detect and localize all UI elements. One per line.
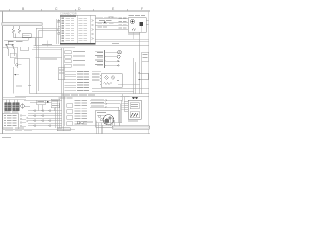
motor box M1 bbox=[96, 110, 120, 127]
wire row bottom A bbox=[90, 100, 122, 122]
U3 pin 3 bbox=[104, 60, 107, 62]
ladder boxes bottom 3 bbox=[67, 116, 73, 120]
wire bus row A bbox=[95, 19, 128, 23]
wire bus row B bbox=[95, 25, 128, 27]
wire label at bulbs bbox=[84, 121, 93, 124]
wire bottom y100 bbox=[24, 99, 62, 101]
hook symbol 1 bbox=[15, 64, 18, 67]
legend row 5 bbox=[62, 28, 65, 29]
wire row 4 bbox=[65, 79, 77, 81]
extra text row bottom-left bbox=[3, 127, 13, 130]
table side verticals bbox=[57, 19, 59, 44]
wire row bottom C bbox=[90, 107, 119, 123]
inline connector on bottom wire bbox=[57, 128, 70, 131]
wire horizontal y47 bbox=[3, 46, 18, 48]
wire row bl6 bbox=[28, 122, 62, 124]
stub wires to right frame bbox=[146, 21, 149, 25]
ladder boxes bottom 2 bbox=[67, 110, 73, 114]
harness tube W1 bbox=[2, 22, 43, 26]
legend row 1 bbox=[62, 18, 65, 19]
short vertical x47 bbox=[46, 41, 48, 47]
wire from tube to fuse F2 bbox=[19, 26, 21, 28]
wire y84.5 bbox=[118, 84, 140, 86]
long wire y93.6 bbox=[30, 93, 150, 95]
bulb connector 1 bbox=[77, 121, 80, 124]
wire row bl4 bbox=[28, 117, 62, 119]
tiny label in box bbox=[16, 85, 22, 88]
wire from pin2 bbox=[106, 56, 117, 58]
wire row bottom B bbox=[90, 104, 120, 123]
border frame left bbox=[2, 11, 4, 134]
arrow marks on rows bbox=[26, 117, 28, 122]
device outline left tall bbox=[13, 59, 30, 94]
junction box left bbox=[58, 68, 65, 80]
wire from tube to fuse F1 bbox=[13, 26, 15, 28]
vertical bus bottom-middle bbox=[62, 96, 65, 128]
wire row 2 bbox=[65, 73, 77, 75]
nested wire corner 1 bbox=[36, 28, 57, 93]
connector stub wires bbox=[7, 100, 18, 103]
U2 internal drop bbox=[133, 26, 141, 39]
terminal bracket right bbox=[140, 73, 148, 80]
wire bottom of heater bbox=[96, 122, 122, 124]
border frame bottom bbox=[0, 133, 150, 135]
legend row 7 bbox=[62, 33, 65, 34]
K2 resistor bbox=[104, 82, 112, 84]
wire label mid bbox=[40, 59, 57, 60]
splice on bus bbox=[104, 22, 106, 23]
ladder boxes bottom 1 bbox=[67, 104, 73, 108]
text above heater bbox=[121, 95, 130, 98]
wire row 1 bbox=[65, 71, 77, 73]
heater unit box bbox=[128, 100, 141, 119]
header text row bbox=[96, 16, 103, 19]
side symbol c bbox=[57, 21, 60, 23]
side symbol b bbox=[58, 32, 60, 34]
legend row 6 bbox=[62, 30, 65, 31]
legend row 2 bbox=[62, 20, 65, 21]
legend row 10 bbox=[62, 40, 65, 41]
fuse F2 bbox=[18, 29, 21, 34]
wire row 8 bbox=[65, 89, 77, 91]
bulb symbol right of connectors bbox=[21, 104, 24, 107]
splice dot bbox=[47, 101, 49, 103]
main harness lines bbox=[34, 45, 150, 47]
border frame top bbox=[0, 10, 150, 12]
fuse box legend table U1 bbox=[60, 15, 95, 44]
harness tube bottom W2 bbox=[112, 126, 150, 130]
wires above connectors bbox=[3, 97, 26, 99]
wire label above band bbox=[42, 43, 52, 46]
hatch mark inside U2 bbox=[132, 28, 136, 30]
wire label on bus bbox=[99, 19, 105, 22]
vertical from tube end bbox=[41, 26, 43, 38]
legend row 8 bbox=[62, 35, 65, 36]
U3 pin 2 bbox=[104, 55, 107, 57]
dense label row above y96 bbox=[62, 93, 70, 96]
fuse ladder box 2 bbox=[65, 55, 71, 58]
U3 labels bbox=[95, 51, 103, 66]
relay K1 bbox=[22, 34, 31, 38]
K2 motor symbol 2 bbox=[111, 76, 114, 79]
legend row 9 bbox=[62, 38, 65, 39]
vertical wires right-middle bbox=[134, 58, 142, 94]
U3 pin 1 bbox=[104, 51, 107, 53]
ladder boxes bottom 4 bbox=[67, 122, 73, 126]
wire row bl1 bbox=[28, 110, 62, 112]
indicator lamp L1 bbox=[131, 20, 135, 24]
wire bus row C bbox=[95, 28, 128, 30]
legend row 4 bbox=[62, 25, 65, 26]
wire row 3 bbox=[65, 76, 77, 78]
wire from switch bbox=[7, 41, 9, 45]
labels rows bottom bbox=[91, 99, 104, 107]
fuse ladder box 1 bbox=[65, 51, 71, 54]
lamp symbol L2 bbox=[118, 50, 122, 54]
wire y40.5 bbox=[4, 37, 28, 40]
motor M1 bbox=[103, 115, 113, 125]
long wire y96.4 bbox=[15, 95, 149, 97]
bulb connector 2 bbox=[81, 121, 84, 124]
drop wires to frame bbox=[97, 121, 103, 134]
labels below connectors bbox=[4, 110, 11, 113]
label below U2 bbox=[128, 33, 140, 34]
connector block CN2 bbox=[13, 103, 20, 111]
wire segment left bbox=[9, 50, 15, 56]
fuse ladder box 3 bbox=[65, 60, 71, 63]
vertical bus right-of-mid bbox=[56, 100, 59, 128]
wire from pin3 bbox=[106, 60, 120, 62]
wire row 5 bbox=[65, 81, 77, 83]
long top lines bbox=[96, 39, 150, 41]
inline connector arrows bbox=[34, 110, 36, 112]
resistor block right bbox=[142, 52, 149, 61]
control unit box U2 top-right bbox=[128, 18, 146, 33]
K2 contact dot bbox=[117, 80, 119, 82]
fuse ladder box 4 bbox=[65, 64, 71, 67]
box with text mid-bottom bbox=[51, 99, 60, 108]
wire row labels bbox=[77, 71, 100, 91]
label above U2 bbox=[129, 14, 134, 17]
stub verticals from boxes bbox=[38, 105, 54, 111]
text block below bbox=[59, 96, 66, 99]
inner label box bbox=[130, 103, 139, 109]
wire row bl3 bbox=[28, 115, 62, 117]
switch label bbox=[9, 41, 14, 42]
long wire y129.3 bbox=[3, 128, 76, 130]
side symbol a bbox=[57, 29, 60, 31]
U3 pin 4 bbox=[104, 64, 107, 66]
table bottom dark edge bbox=[60, 43, 96, 45]
small box mid-bottom bbox=[37, 100, 46, 105]
legend row 3 bbox=[62, 23, 65, 24]
K2 motor symbol 1 bbox=[105, 76, 108, 79]
fuse F1 bbox=[12, 29, 15, 34]
wire from U2 down bbox=[139, 32, 141, 94]
pin arcs bottom rows bbox=[105, 99, 108, 108]
K2 left pins bbox=[100, 76, 101, 85]
ladder labels bbox=[73, 51, 85, 65]
svg-text:CONNECTOR: CONNECTOR bbox=[60, 11, 77, 15]
wires into tube bbox=[111, 118, 114, 126]
wire riser group bbox=[17, 47, 29, 68]
feeder wire to tube bbox=[66, 124, 112, 126]
bus pin labels near U2 bbox=[119, 18, 127, 29]
hook symbol 2 bbox=[14, 74, 16, 76]
vertical bus pair left-middle bbox=[62, 48, 64, 96]
legend table bottom-left bbox=[3, 113, 19, 129]
label below heater bbox=[128, 119, 138, 122]
ground arrows bbox=[132, 97, 138, 100]
wire y57.5 bbox=[36, 57, 62, 59]
grid tick marks bbox=[9, 9, 127, 11]
pin symbol column bbox=[20, 115, 22, 117]
bottom text row bbox=[5, 129, 13, 132]
wire from pin1 bbox=[106, 51, 118, 53]
wire row 7 bbox=[65, 88, 150, 92]
relay box K2 bbox=[101, 74, 122, 88]
pin comb left of heater bbox=[125, 102, 129, 112]
switch S1 bbox=[5, 45, 15, 51]
wire row bl7 bbox=[28, 125, 62, 127]
wire bottom y103 bbox=[30, 102, 51, 104]
border frame right bbox=[148, 11, 150, 134]
component block inside U2 bbox=[140, 22, 144, 26]
lamp symbol L3 bbox=[117, 55, 120, 58]
connector block CN1 bbox=[5, 103, 12, 111]
legend arrows bbox=[92, 20, 94, 40]
wire row 6 bbox=[65, 84, 77, 86]
wire bus below fuses bbox=[14, 33, 43, 46]
wire row bl2 bbox=[28, 112, 62, 114]
wire row bl5 bbox=[28, 120, 62, 122]
wire to relay top bbox=[92, 70, 101, 72]
wire from pin4 bbox=[106, 64, 120, 66]
wire y49.5 bbox=[32, 49, 62, 51]
nested wire corner 2 bbox=[38, 31, 57, 92]
bottom ladder labels bbox=[75, 100, 88, 124]
junction box small bbox=[10, 53, 16, 58]
wires to right unit bbox=[123, 94, 125, 112]
connector header bar U3 bbox=[104, 50, 106, 68]
svg-text:F: F bbox=[141, 7, 143, 11]
tick on box edge bbox=[28, 84, 31, 86]
title text below frame bbox=[2, 137, 11, 138]
heater element box bbox=[130, 112, 140, 118]
more bus labels bbox=[98, 17, 114, 28]
